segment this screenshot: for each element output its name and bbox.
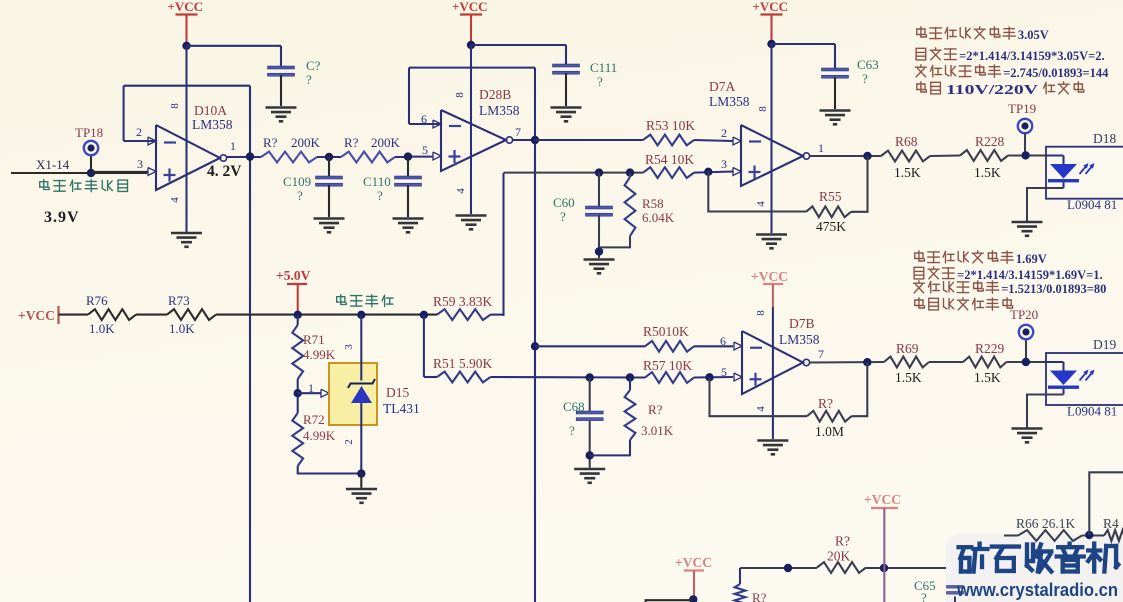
svg-text:=2.745/0.01893=144: =2.745/0.01893=144 [1003,66,1109,80]
svg-text:TP19: TP19 [1008,101,1036,116]
svg-text:R51 5.90K: R51 5.90K [433,356,493,371]
svg-text:C?: C? [306,58,321,73]
svg-text:R57 10K: R57 10K [643,358,692,373]
svg-text:R?: R? [752,590,767,602]
svg-text:200K: 200K [291,135,321,150]
svg-text:2: 2 [136,125,142,139]
svg-text:R5010K: R5010K [643,324,689,339]
svg-text:LM358: LM358 [709,94,750,109]
svg-text:+5.0V: +5.0V [276,268,311,283]
svg-text:?: ? [560,209,566,224]
svg-text:1.5K: 1.5K [894,165,921,180]
svg-text:R?: R? [344,135,359,150]
svg-text:=2*1.414/3.14159*3.05V=2.: =2*1.414/3.14159*3.05V=2. [959,49,1105,63]
svg-text:R68: R68 [895,134,918,149]
svg-text:R69: R69 [896,341,919,356]
svg-text:+VCC: +VCC [675,555,712,570]
svg-text:D19: D19 [1093,337,1116,352]
svg-text:4.99K: 4.99K [303,347,336,362]
svg-text:R71: R71 [303,332,325,347]
svg-text:1.5K: 1.5K [974,165,1001,180]
svg-text:LM358: LM358 [192,117,233,132]
svg-text:R?: R? [818,396,833,411]
svg-text:7: 7 [515,125,521,139]
svg-text:6: 6 [421,112,427,126]
svg-text:+VCC: +VCC [751,269,788,284]
svg-text:R58: R58 [642,196,664,211]
svg-text:5: 5 [721,365,727,379]
svg-text:?: ? [306,72,312,87]
svg-text:D18: D18 [1093,131,1116,146]
svg-text:8: 8 [454,92,466,98]
svg-text:3.9V: 3.9V [44,209,80,226]
svg-text:R72: R72 [303,412,325,427]
svg-text:3.05V: 3.05V [1018,28,1049,42]
svg-text:D7B: D7B [789,316,815,331]
svg-text:R73: R73 [168,293,190,308]
svg-text:?: ? [862,71,868,86]
svg-text:R59 3.83K: R59 3.83K [433,294,493,309]
svg-text:7: 7 [818,347,824,361]
svg-text:3: 3 [721,157,727,171]
svg-text:www.crystalradio.cn: www.crystalradio.cn [956,579,1118,600]
svg-text:?: ? [297,188,303,203]
svg-text:C110: C110 [363,174,391,189]
svg-text:D7A: D7A [709,79,735,94]
svg-text:R54 10K: R54 10K [645,152,694,167]
svg-text:R66 26.1K: R66 26.1K [1016,516,1076,531]
svg-text:R53 10K: R53 10K [646,118,695,133]
svg-text:C109: C109 [283,174,311,189]
svg-text:8: 8 [169,103,181,109]
svg-text:LM358: LM358 [779,332,820,347]
svg-text:4.99K: 4.99K [303,428,336,443]
svg-text:?: ? [377,188,383,203]
svg-text:3: 3 [343,344,355,350]
svg-text:C63: C63 [857,57,879,72]
svg-text:6: 6 [720,334,726,348]
svg-text:?: ? [921,590,927,602]
svg-text:475K: 475K [816,219,846,234]
svg-text:D28B: D28B [479,87,511,102]
svg-text:R229: R229 [975,341,1005,356]
svg-text:=2*1.414/3.14159*1.69V=1.: =2*1.414/3.14159*1.69V=1. [957,268,1103,282]
svg-text:R76: R76 [86,293,108,308]
svg-text:+VCC: +VCC [753,0,789,14]
svg-text:+VCC: +VCC [452,0,488,14]
svg-text:1.69V: 1.69V [1016,252,1047,266]
svg-text:1: 1 [230,139,236,153]
svg-text:8: 8 [757,106,769,112]
svg-text:D15: D15 [386,385,409,400]
svg-text:R228: R228 [975,134,1005,149]
svg-text:R?: R? [648,402,663,417]
svg-text:1.5K: 1.5K [974,370,1001,385]
svg-text:C111: C111 [590,60,617,75]
svg-text:LM358: LM358 [479,103,520,118]
svg-text:6.04K: 6.04K [642,210,675,225]
svg-text:4: 4 [755,201,767,207]
svg-text:2: 2 [343,439,355,445]
svg-text:TL431: TL431 [383,401,420,416]
svg-text:R4: R4 [1103,516,1119,531]
svg-text:20K: 20K [827,549,851,564]
svg-text:=1.5213/0.01893=80: =1.5213/0.01893=80 [1001,282,1106,296]
svg-text:TP20: TP20 [1010,307,1038,322]
svg-text:+VCC: +VCC [864,492,901,507]
svg-text:+VCC: +VCC [18,308,55,323]
svg-text:R?: R? [835,534,850,549]
svg-text:L0904 81: L0904 81 [1067,197,1117,212]
svg-text:C68: C68 [563,399,585,414]
svg-text:1: 1 [818,141,824,155]
svg-text:4. 2V: 4. 2V [207,163,242,180]
svg-text:L0904 81: L0904 81 [1067,404,1117,419]
svg-text:C60: C60 [553,195,575,210]
svg-text:8: 8 [755,310,767,316]
svg-text:R55: R55 [819,189,842,204]
svg-text:R?: R? [263,135,278,150]
svg-text:1.0K: 1.0K [89,321,115,336]
svg-text:?: ? [569,423,575,438]
svg-text:110V/220V: 110V/220V [946,82,1038,97]
svg-text:D10A: D10A [194,103,227,118]
svg-text:4: 4 [755,406,767,412]
svg-text:X1-14: X1-14 [36,157,70,172]
svg-text:?: ? [597,74,603,89]
svg-text:1.0M: 1.0M [815,424,844,439]
svg-text:200K: 200K [371,135,401,150]
svg-text:+VCC: +VCC [168,0,204,14]
svg-text:4: 4 [169,197,181,203]
svg-text:5: 5 [422,143,428,157]
svg-text:3.01K: 3.01K [641,423,674,438]
svg-text:1.5K: 1.5K [895,370,922,385]
svg-text:3: 3 [137,157,143,171]
svg-text:2: 2 [721,126,727,140]
svg-text:4: 4 [455,188,467,194]
svg-text:1.0K: 1.0K [169,321,195,336]
svg-text:TP18: TP18 [75,125,103,140]
